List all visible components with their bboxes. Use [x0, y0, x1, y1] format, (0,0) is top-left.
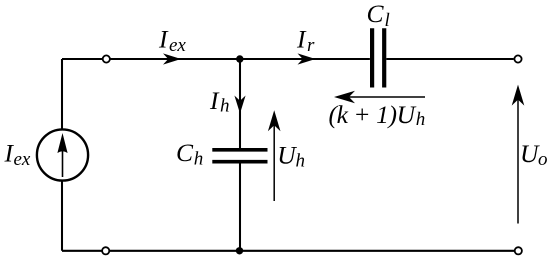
svg-text:r: r: [307, 35, 315, 56]
svg-text:ex: ex: [169, 35, 186, 56]
svg-text:I: I: [158, 24, 169, 53]
svg-text:U: U: [277, 141, 297, 170]
svg-text:h: h: [296, 151, 306, 172]
svg-text:I: I: [296, 24, 307, 53]
svg-text:h: h: [194, 148, 204, 169]
svg-text:h: h: [416, 109, 426, 130]
svg-text:ex: ex: [14, 149, 31, 170]
svg-text:(k + 1)U: (k + 1)U: [329, 100, 417, 129]
svg-text:l: l: [385, 10, 390, 31]
svg-text:C: C: [176, 138, 194, 167]
svg-text:h: h: [220, 96, 230, 117]
svg-text:o: o: [538, 149, 548, 170]
svg-text:I: I: [209, 86, 220, 115]
svg-text:C: C: [367, 0, 385, 28]
svg-text:U: U: [520, 139, 540, 168]
